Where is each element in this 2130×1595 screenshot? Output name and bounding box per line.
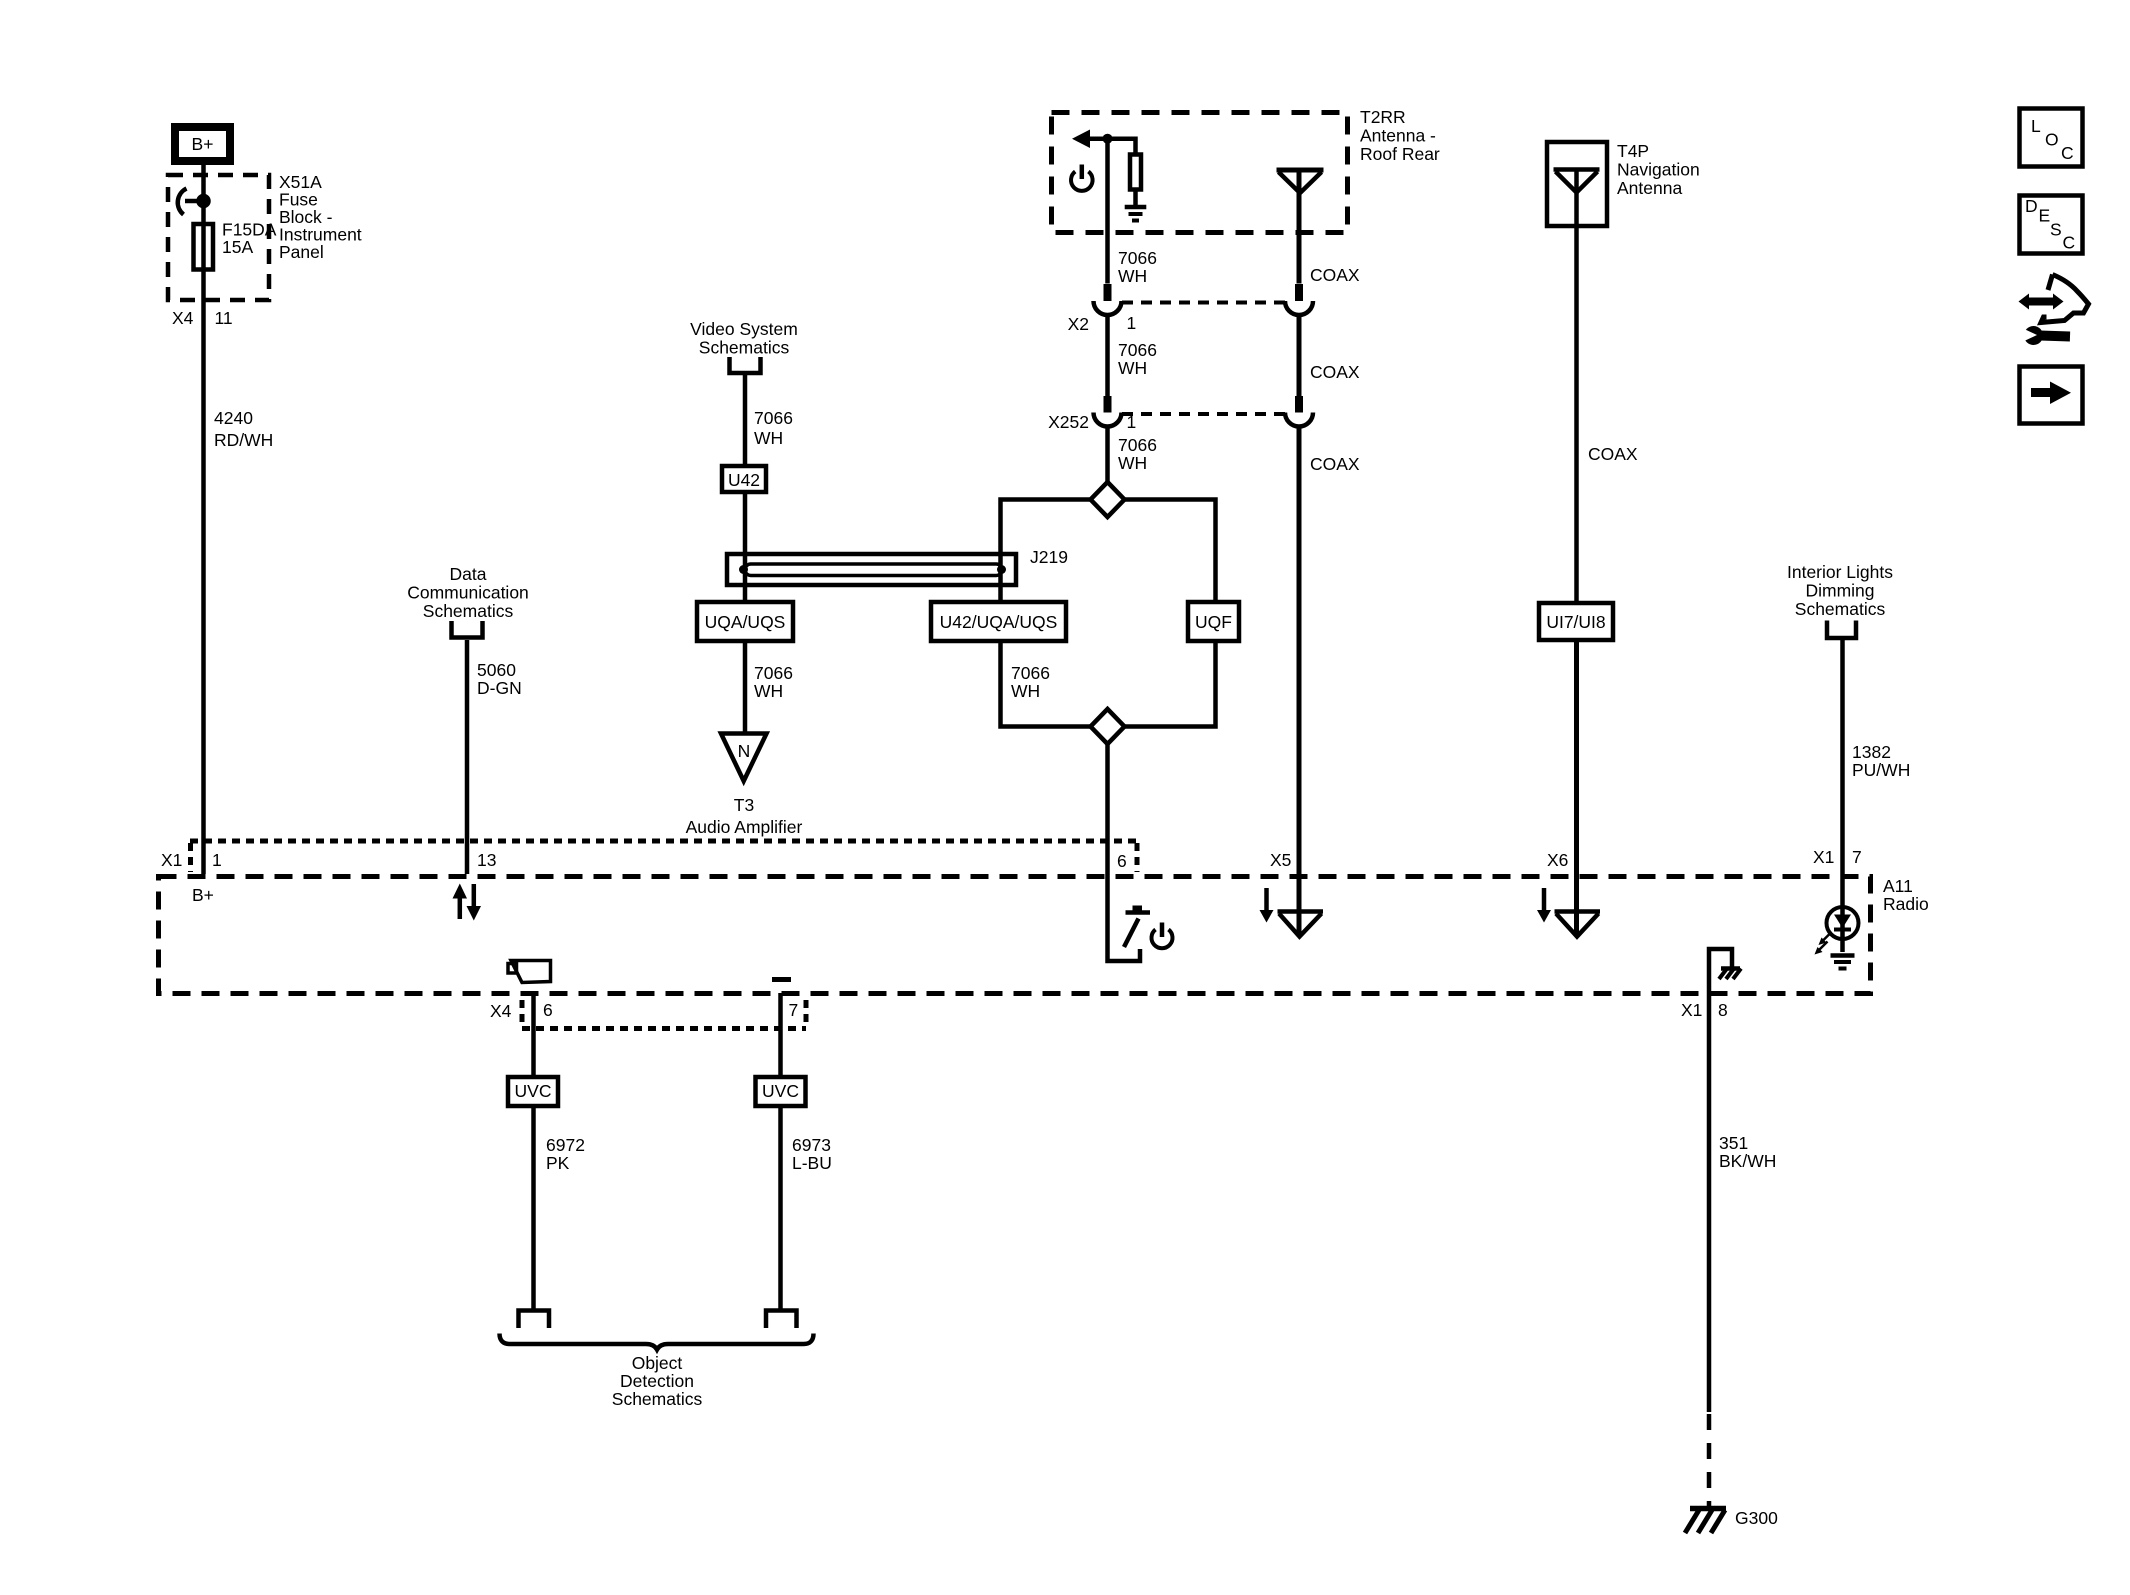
navigation antenna T4P box bbox=[1547, 141, 1700, 226]
antenna input symbol at pin X5 bbox=[1260, 888, 1324, 937]
svg-text:X1: X1 bbox=[1813, 847, 1834, 867]
svg-text:6973: 6973 bbox=[792, 1135, 831, 1155]
RPO box UI7/UI8 bbox=[1539, 603, 1613, 640]
svg-text:UVC: UVC bbox=[515, 1081, 552, 1101]
ground under LED bbox=[1831, 956, 1855, 969]
illumination LED at pin X1-7 bbox=[1827, 907, 1859, 939]
ground G300 bbox=[1685, 1508, 1778, 1533]
wire 7066 WH X252 to splice diamond bbox=[1108, 427, 1157, 483]
svg-text:7: 7 bbox=[789, 1000, 799, 1020]
connector terminal hook in fuse block bbox=[178, 189, 209, 215]
svg-text:6: 6 bbox=[543, 1000, 553, 1020]
svg-text:Communication: Communication bbox=[407, 583, 529, 603]
svg-text:8: 8 bbox=[1718, 1000, 1728, 1020]
svg-text:D: D bbox=[2025, 196, 2038, 216]
coax wire X252 to radio pin X5 bbox=[1299, 427, 1360, 937]
svg-text:C: C bbox=[2061, 143, 2074, 163]
svg-text:WH: WH bbox=[754, 681, 783, 701]
svg-text:Audio Amplifier: Audio Amplifier bbox=[686, 817, 803, 837]
power switch at radio pin 6 bbox=[1108, 876, 1151, 961]
svg-text:PK: PK bbox=[546, 1153, 570, 1173]
antenna symbol in T2RR bbox=[1277, 170, 1324, 193]
svg-text:X6: X6 bbox=[1547, 850, 1568, 870]
svg-text:WH: WH bbox=[1118, 358, 1147, 378]
svg-text:7066: 7066 bbox=[754, 408, 793, 428]
svg-text:Schematics: Schematics bbox=[612, 1389, 703, 1409]
arrow into T2RR module bbox=[1072, 130, 1108, 149]
svg-text:1: 1 bbox=[1127, 313, 1137, 333]
svg-text:X4: X4 bbox=[172, 308, 194, 328]
svg-text:J219: J219 bbox=[1030, 547, 1068, 567]
svg-text:6972: 6972 bbox=[546, 1135, 585, 1155]
svg-text:PU/WH: PU/WH bbox=[1852, 760, 1910, 780]
svg-text:T3: T3 bbox=[734, 795, 754, 815]
svg-text:T2RR: T2RR bbox=[1360, 107, 1406, 127]
B+ power symbol bbox=[175, 127, 230, 161]
svg-text:COAX: COAX bbox=[1310, 454, 1360, 474]
svg-text:X1: X1 bbox=[161, 850, 182, 870]
coax lead T2RR to X2 bbox=[1299, 170, 1360, 285]
svg-text:BK/WH: BK/WH bbox=[1719, 1151, 1776, 1171]
svg-text:Interior Lights: Interior Lights bbox=[1787, 562, 1893, 582]
diagnostic icon double arrow bbox=[2019, 294, 2064, 310]
DESC legend box bbox=[2020, 196, 2083, 254]
svg-text:UQF: UQF bbox=[1195, 612, 1232, 632]
svg-text:Schematics: Schematics bbox=[699, 338, 790, 358]
fuse block X51A dashed box bbox=[168, 175, 269, 300]
splice pack J219 bbox=[727, 547, 1068, 585]
svg-text:WH: WH bbox=[1011, 681, 1040, 701]
svg-text:4240: 4240 bbox=[214, 408, 253, 428]
wire 7066 WH to audio amplifier bbox=[745, 643, 793, 732]
RPO box UVC left bbox=[508, 1077, 558, 1106]
wire resistor to ground bbox=[1133, 190, 1138, 207]
in-line connector X252 pin 1 (7066 WH side) bbox=[1048, 396, 1136, 432]
connector X2 dashed tie line bbox=[1122, 301, 1285, 305]
svg-text:WH: WH bbox=[1118, 453, 1147, 473]
svg-text:Object: Object bbox=[632, 1353, 683, 1373]
splice diamond lower bbox=[1091, 709, 1125, 744]
svg-text:G300: G300 bbox=[1735, 1508, 1778, 1528]
svg-text:B+: B+ bbox=[192, 885, 214, 905]
RPO box U42/UQA/UQS bbox=[931, 602, 1066, 641]
ground in T2RR bbox=[1125, 207, 1147, 221]
svg-text:E: E bbox=[2039, 206, 2051, 226]
svg-text:Antenna -: Antenna - bbox=[1360, 126, 1436, 146]
svg-text:T4P: T4P bbox=[1617, 141, 1649, 161]
antenna module T2RR dashed box bbox=[1052, 113, 1348, 233]
in-line connector X252 (coax side) bbox=[1285, 396, 1313, 427]
svg-text:7066: 7066 bbox=[1118, 248, 1157, 268]
wire lower diamond to radio pin 6 bbox=[1105, 744, 1110, 876]
bidirectional arrows at pin 13 bbox=[453, 884, 482, 921]
wire 7066 WH T2RR to X2 bbox=[1108, 139, 1157, 286]
svg-text:Roof Rear: Roof Rear bbox=[1360, 144, 1440, 164]
svg-text:X252: X252 bbox=[1048, 412, 1089, 432]
svg-text:Video System: Video System bbox=[690, 319, 798, 339]
connector label X1 pin 8 bbox=[1681, 1000, 1728, 1020]
wire 7066 WH video branch bbox=[745, 375, 793, 600]
svg-text:A11: A11 bbox=[1883, 876, 1913, 896]
svg-text:Dimming: Dimming bbox=[1805, 581, 1874, 601]
triangle connector N T3 Audio Amplifier bbox=[686, 734, 803, 838]
svg-text:X2: X2 bbox=[1068, 314, 1089, 334]
svg-text:N: N bbox=[738, 741, 751, 761]
dashed wire to G300 bbox=[1707, 1414, 1712, 1506]
svg-text:WH: WH bbox=[754, 428, 783, 448]
next-page arrow box bbox=[2020, 367, 2083, 424]
svg-text:COAX: COAX bbox=[1310, 265, 1360, 285]
coax wire T4P to UI7/UI8 bbox=[1577, 170, 1638, 604]
wire 1382 PU/WH to radio pin X1-7 bbox=[1843, 640, 1911, 952]
brace Object Detection bbox=[500, 1334, 814, 1350]
svg-text:Detection: Detection bbox=[620, 1371, 694, 1391]
svg-text:1: 1 bbox=[212, 850, 222, 870]
wire label 4240 RD/WH bbox=[214, 408, 273, 450]
terminal right bbox=[766, 1311, 797, 1329]
svg-text:13: 13 bbox=[477, 850, 496, 870]
minus node at pin X4-7 bbox=[772, 977, 791, 982]
svg-text:1382: 1382 bbox=[1852, 742, 1891, 762]
svg-text:Data: Data bbox=[450, 564, 487, 584]
antenna symbol in T4P bbox=[1554, 170, 1600, 193]
svg-text:UQA/UQS: UQA/UQS bbox=[705, 612, 786, 632]
svg-text:U42: U42 bbox=[728, 470, 760, 490]
LOC legend box bbox=[2020, 109, 2083, 167]
wire 6973 L-BU bbox=[781, 993, 832, 1310]
svg-text:Schematics: Schematics bbox=[423, 601, 514, 621]
wire 5060 D-GN to radio pin X1-13 bbox=[467, 640, 522, 874]
svg-text:15A: 15A bbox=[222, 237, 253, 257]
wire 351 BK/WH bbox=[1709, 993, 1776, 1412]
RPO box UQF bbox=[1188, 602, 1239, 641]
wire 6972 PK bbox=[534, 993, 585, 1310]
svg-text:U42/UQA/UQS: U42/UQA/UQS bbox=[940, 612, 1058, 632]
svg-text:5060: 5060 bbox=[477, 660, 516, 680]
antenna input symbol at pin X6 bbox=[1537, 888, 1600, 937]
terminal left bbox=[519, 1311, 550, 1329]
connector X4 pin labels bbox=[490, 1000, 798, 1021]
wire 7066 WH X2 to X252 bbox=[1108, 315, 1157, 396]
radio A11 dashed box bbox=[159, 877, 1871, 994]
in-line connector X2 (coax side) bbox=[1285, 284, 1313, 315]
diagnostic icon outline bbox=[2041, 275, 2089, 323]
connector X1 pin labels bbox=[161, 847, 1862, 871]
svg-text:L-BU: L-BU bbox=[792, 1153, 832, 1173]
splice diamond upper bbox=[1091, 482, 1125, 517]
wire B+ to radio pin X1-1 bbox=[201, 165, 206, 874]
svg-text:Schematics: Schematics bbox=[1795, 599, 1886, 619]
diagnostic icon wrench bbox=[2022, 326, 2070, 345]
svg-text:X5: X5 bbox=[1270, 850, 1291, 870]
svg-text:Radio: Radio bbox=[1883, 894, 1929, 914]
label Object Detection Schematics bbox=[612, 1353, 703, 1409]
svg-text:B+: B+ bbox=[192, 134, 214, 154]
junction node in T2RR bbox=[1103, 134, 1113, 144]
svg-text:O: O bbox=[2045, 130, 2059, 150]
power symbol in T2RR bbox=[1071, 165, 1093, 191]
svg-text:D-GN: D-GN bbox=[477, 678, 522, 698]
svg-text:COAX: COAX bbox=[1588, 444, 1638, 464]
coax wire UI7/UI8 to radio pin X6 bbox=[1574, 640, 1579, 936]
RPO box U42 bbox=[722, 466, 766, 492]
svg-text:L: L bbox=[2031, 116, 2041, 136]
svg-text:11: 11 bbox=[215, 308, 233, 328]
svg-text:X1: X1 bbox=[1681, 1000, 1702, 1020]
fuse block label X51A bbox=[279, 172, 362, 262]
connector X4 dotted line bbox=[522, 1000, 806, 1029]
power symbol at radio pin 6 bbox=[1152, 923, 1173, 949]
svg-text:6: 6 bbox=[1117, 851, 1127, 871]
svg-text:UVC: UVC bbox=[762, 1081, 799, 1101]
fuse F15DA 15A bbox=[194, 220, 277, 270]
connector label X4 pin 11 bbox=[172, 308, 233, 328]
svg-text:Navigation: Navigation bbox=[1617, 160, 1700, 180]
LED light arrows bbox=[1815, 932, 1832, 955]
chassis ground at pin X1-8 bbox=[1709, 949, 1741, 993]
RPO box UVC right bbox=[756, 1077, 806, 1106]
svg-text:X4: X4 bbox=[490, 1001, 512, 1021]
svg-text:WH: WH bbox=[1118, 266, 1147, 286]
wire 7066 WH U42/UQA/UQS box to lower diamond bbox=[1001, 643, 1091, 727]
svg-text:Panel: Panel bbox=[279, 242, 324, 262]
off-page connector Video System Schematics bbox=[690, 319, 798, 373]
camera icon at pin X4-6 bbox=[508, 961, 551, 983]
connector X252 dashed tie line bbox=[1122, 412, 1285, 416]
off-page connector Interior Lights Dimming Schematics bbox=[1787, 562, 1893, 638]
svg-text:Antenna: Antenna bbox=[1617, 178, 1682, 198]
off-page connector Data Communication Schematics bbox=[407, 564, 529, 638]
svg-text:7066: 7066 bbox=[1118, 435, 1157, 455]
resistor in T2RR bbox=[1130, 155, 1141, 190]
label A11 Radio bbox=[1883, 876, 1929, 914]
wire to resistor bbox=[1108, 139, 1136, 155]
RPO box UQA/UQS bbox=[697, 602, 793, 641]
connector X1 dotted line bbox=[190, 841, 1137, 872]
svg-text:351: 351 bbox=[1719, 1133, 1748, 1153]
svg-text:RD/WH: RD/WH bbox=[214, 430, 273, 450]
svg-text:7: 7 bbox=[1852, 847, 1862, 867]
svg-text:COAX: COAX bbox=[1310, 362, 1360, 382]
in-line connector X2 pin 1 (7066 WH side) bbox=[1068, 284, 1137, 334]
wire UQF box to lower diamond bbox=[1125, 643, 1216, 727]
wire upper diamond to UQF box bbox=[1125, 500, 1216, 601]
svg-text:7066: 7066 bbox=[1118, 340, 1157, 360]
svg-text:7066: 7066 bbox=[754, 663, 793, 683]
svg-text:7066: 7066 bbox=[1011, 663, 1050, 683]
svg-text:S: S bbox=[2050, 220, 2062, 240]
wire upper diamond to U42/UQA/UQS box bbox=[1001, 500, 1091, 601]
label T2RR Antenna - Roof Rear bbox=[1360, 107, 1440, 164]
svg-text:UI7/UI8: UI7/UI8 bbox=[1546, 612, 1605, 632]
svg-text:C: C bbox=[2063, 233, 2076, 253]
coax wire X2 to X252 bbox=[1299, 315, 1360, 396]
